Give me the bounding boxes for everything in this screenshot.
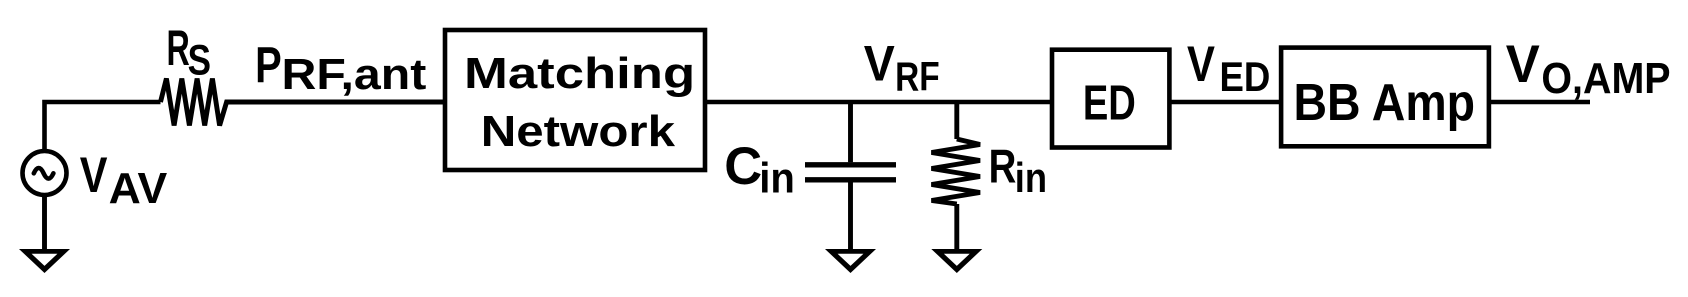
svg-text:ED: ED [1220, 53, 1271, 100]
svg-text:R: R [989, 139, 1017, 192]
svg-text:ED: ED [1083, 77, 1136, 131]
svg-text:BB Amp: BB Amp [1293, 73, 1475, 131]
svg-text:V: V [864, 36, 896, 92]
svg-text:RF,ant: RF,ant [281, 50, 426, 99]
svg-text:V: V [1187, 36, 1215, 92]
svg-text:AV: AV [109, 164, 168, 213]
svg-text:Matching: Matching [464, 50, 695, 98]
svg-text:Network: Network [481, 108, 676, 156]
svg-text:V: V [80, 147, 108, 203]
svg-text:S: S [188, 36, 211, 84]
svg-text:R: R [166, 20, 189, 76]
svg-text:P: P [255, 37, 282, 94]
svg-text:RF: RF [895, 53, 940, 99]
svg-text:C: C [724, 137, 762, 196]
svg-text:O,AMP: O,AMP [1541, 54, 1670, 103]
svg-text:in: in [1015, 154, 1047, 201]
svg-text:in: in [759, 154, 795, 202]
svg-text:V: V [1506, 35, 1540, 94]
